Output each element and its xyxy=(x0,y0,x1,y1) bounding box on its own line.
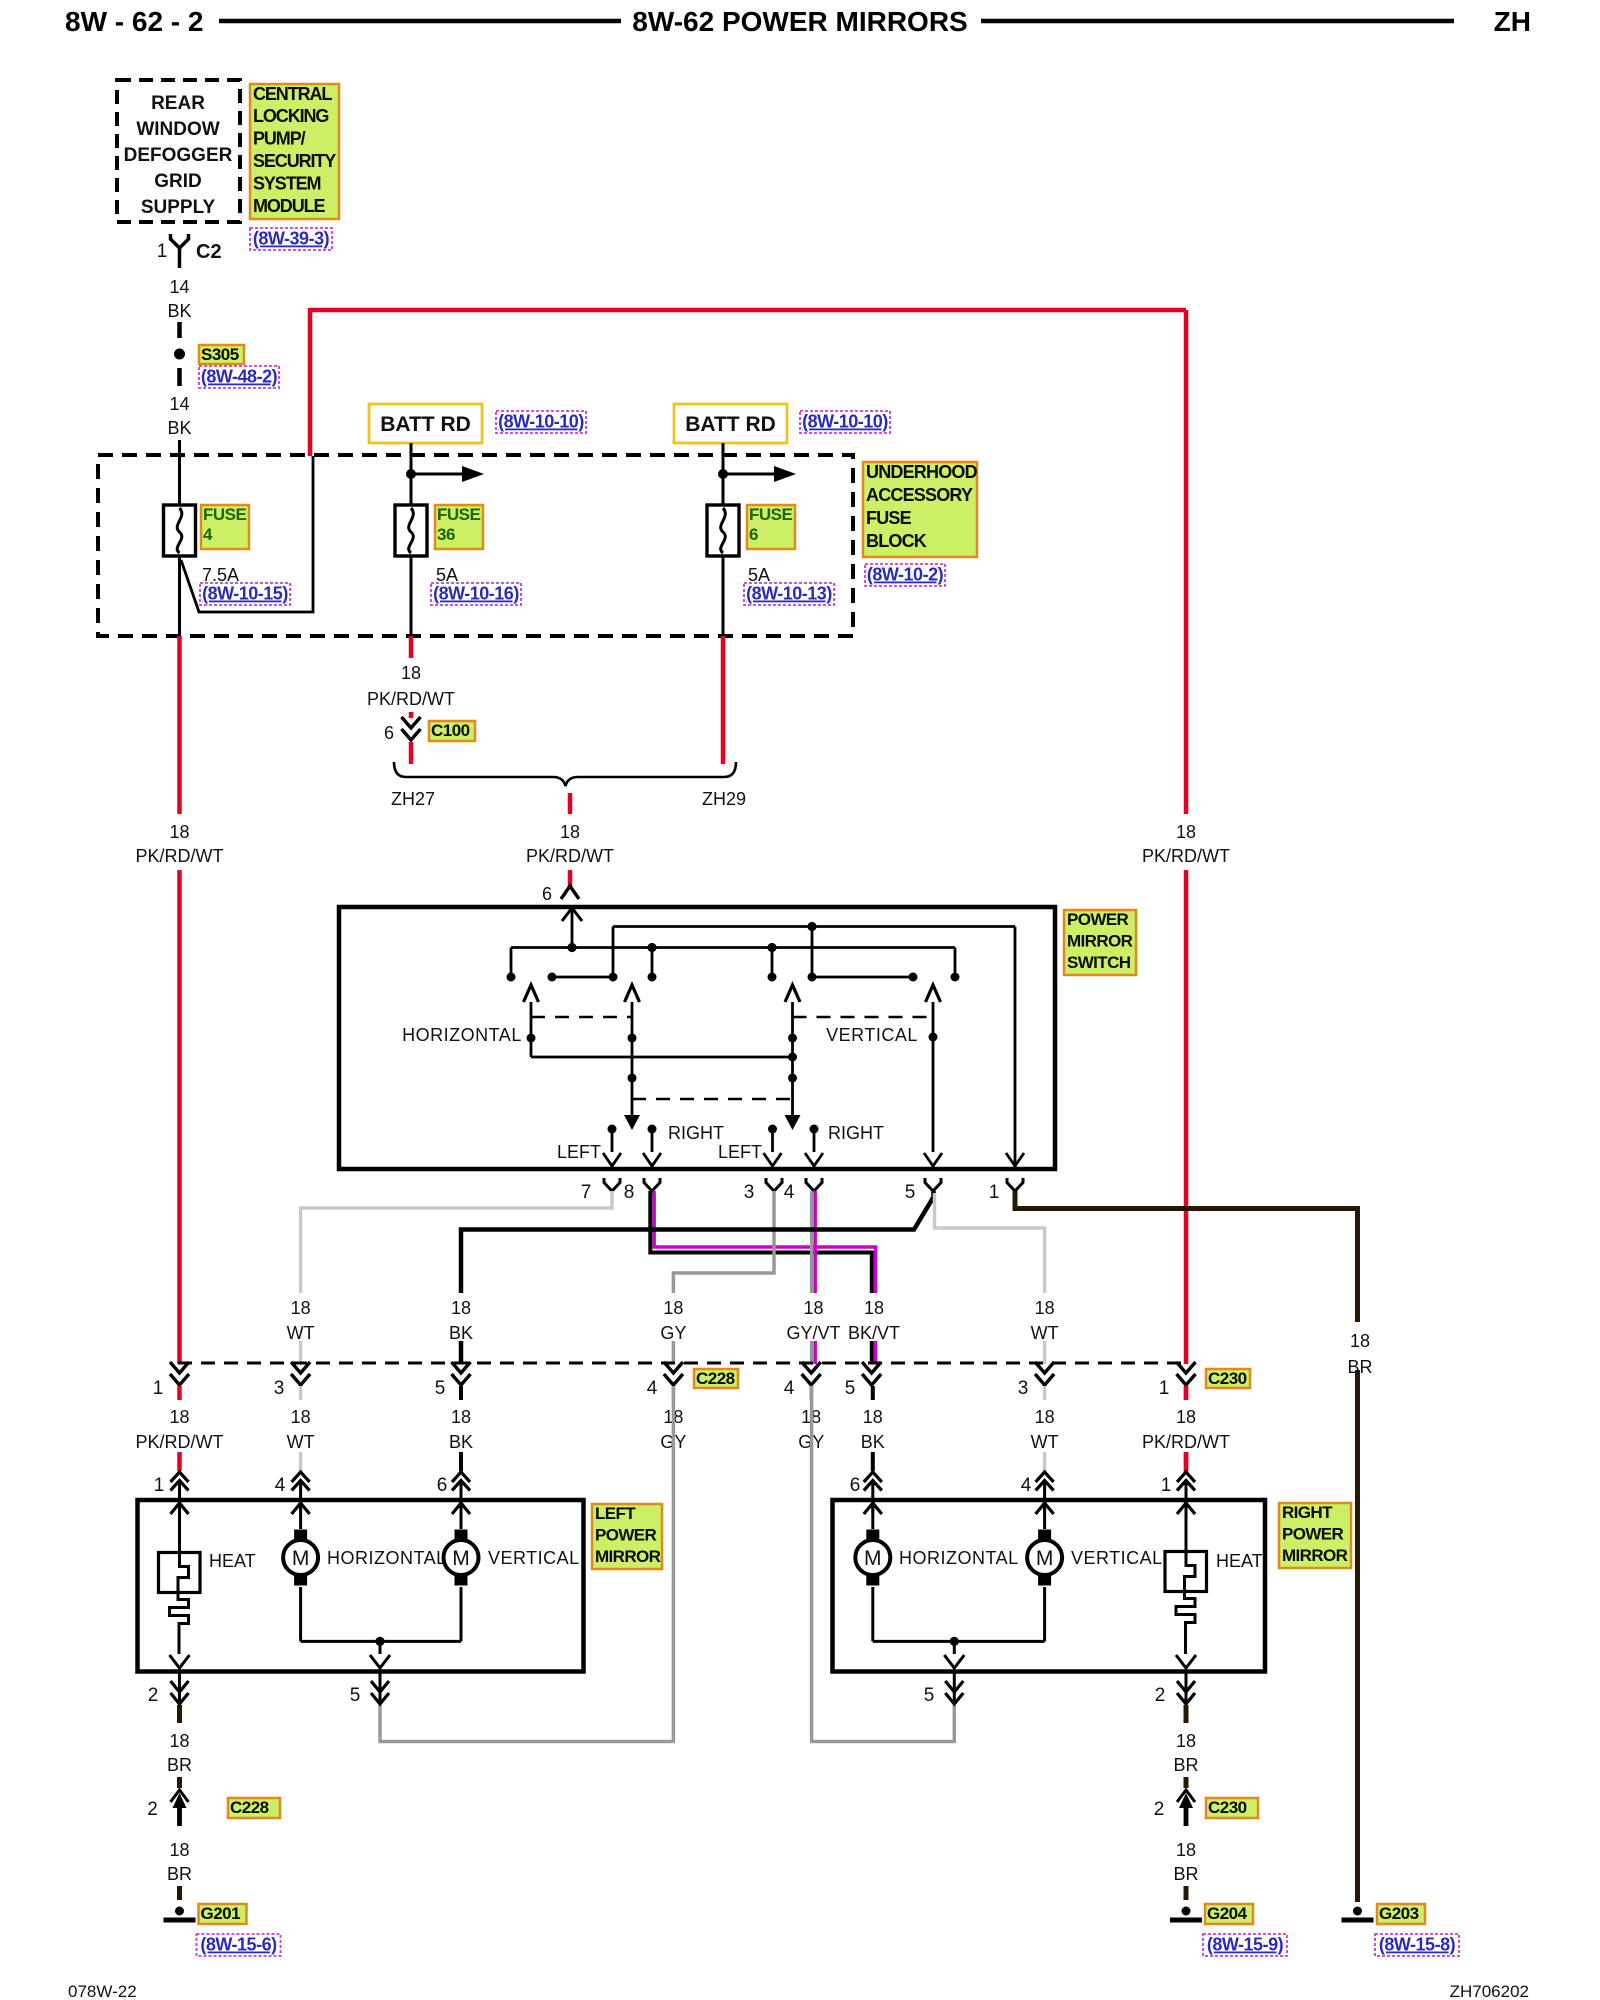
svg-text:ZH: ZH xyxy=(1494,6,1531,37)
svg-text:MIRROR: MIRROR xyxy=(595,1547,661,1566)
svg-text:(8W-48-2): (8W-48-2) xyxy=(201,367,278,387)
svg-text:C228: C228 xyxy=(696,1369,735,1388)
svg-text:(8W-15-9): (8W-15-9) xyxy=(1207,1935,1284,1955)
svg-text:ZH29: ZH29 xyxy=(702,789,746,809)
svg-text:WINDOW: WINDOW xyxy=(136,119,219,140)
svg-text:18: 18 xyxy=(1035,1298,1055,1318)
svg-text:PK/RD/WT: PK/RD/WT xyxy=(367,689,455,709)
svg-text:M: M xyxy=(864,1547,882,1570)
svg-text:LEFT: LEFT xyxy=(557,1142,601,1162)
svg-text:POWER: POWER xyxy=(1067,910,1129,929)
svg-text:PK/RD/WT: PK/RD/WT xyxy=(136,846,224,866)
svg-text:PK/RD/WT: PK/RD/WT xyxy=(1142,1432,1230,1452)
svg-text:DEFOGGER: DEFOGGER xyxy=(124,145,233,166)
svg-text:18: 18 xyxy=(169,1407,189,1427)
svg-text:C100: C100 xyxy=(431,721,470,740)
svg-text:SUPPLY: SUPPLY xyxy=(141,197,216,218)
svg-text:2: 2 xyxy=(1154,1799,1165,1820)
svg-text:G203: G203 xyxy=(1379,1904,1419,1923)
svg-text:GY/VT: GY/VT xyxy=(786,1323,840,1343)
svg-text:1: 1 xyxy=(153,1378,164,1399)
svg-text:C228: C228 xyxy=(230,1798,269,1817)
svg-text:WT: WT xyxy=(1031,1323,1059,1343)
svg-text:5: 5 xyxy=(435,1378,446,1399)
svg-text:1: 1 xyxy=(1159,1378,1170,1399)
svg-text:(8W-10-13): (8W-10-13) xyxy=(746,584,832,604)
svg-text:HEAT: HEAT xyxy=(1216,1551,1263,1571)
svg-text:14: 14 xyxy=(169,394,189,414)
svg-text:6: 6 xyxy=(850,1475,861,1496)
svg-text:VERTICAL: VERTICAL xyxy=(1071,1548,1163,1568)
svg-text:BK: BK xyxy=(167,301,191,321)
svg-text:SYSTEM: SYSTEM xyxy=(253,173,321,193)
svg-text:4: 4 xyxy=(203,525,213,544)
svg-text:5A: 5A xyxy=(436,565,458,585)
svg-text:GRID: GRID xyxy=(154,171,202,192)
svg-text:BK: BK xyxy=(861,1432,885,1452)
svg-text:6: 6 xyxy=(749,525,758,544)
svg-text:CENTRAL: CENTRAL xyxy=(253,84,332,104)
svg-text:18: 18 xyxy=(864,1298,884,1318)
svg-text:8: 8 xyxy=(624,1182,635,1203)
svg-text:LOCKING: LOCKING xyxy=(253,106,328,126)
svg-text:GY: GY xyxy=(660,1323,686,1343)
svg-text:UNDERHOOD: UNDERHOOD xyxy=(866,462,978,482)
svg-text:BATT RD: BATT RD xyxy=(685,413,776,436)
svg-text:BK/VT: BK/VT xyxy=(848,1323,900,1343)
svg-text:WT: WT xyxy=(287,1432,315,1452)
svg-text:(8W-10-16): (8W-10-16) xyxy=(433,584,519,604)
svg-text:FUSE: FUSE xyxy=(437,505,481,524)
svg-text:4: 4 xyxy=(784,1378,795,1399)
svg-text:FUSE: FUSE xyxy=(203,505,247,524)
svg-text:4: 4 xyxy=(784,1182,795,1203)
svg-text:ZH706202: ZH706202 xyxy=(1450,1982,1529,2000)
svg-text:1: 1 xyxy=(154,1475,165,1496)
svg-text:PK/RD/WT: PK/RD/WT xyxy=(526,846,614,866)
svg-text:POWER: POWER xyxy=(595,1525,657,1544)
svg-text:(8W-15-6): (8W-15-6) xyxy=(200,1935,277,1955)
svg-text:POWER: POWER xyxy=(1282,1524,1344,1543)
svg-text:18: 18 xyxy=(291,1298,311,1318)
svg-text:3: 3 xyxy=(1018,1378,1029,1399)
svg-text:G204: G204 xyxy=(1207,1904,1248,1923)
svg-text:(8W-15-8): (8W-15-8) xyxy=(1379,1935,1456,1955)
svg-text:WT: WT xyxy=(1031,1432,1059,1452)
svg-text:2: 2 xyxy=(147,1799,158,1820)
svg-text:(8W-10-10): (8W-10-10) xyxy=(498,412,584,432)
svg-text:BR: BR xyxy=(167,1755,192,1775)
svg-text:5: 5 xyxy=(924,1685,935,1706)
svg-text:MODULE: MODULE xyxy=(253,196,325,216)
svg-text:M: M xyxy=(292,1547,310,1570)
svg-text:078W-22: 078W-22 xyxy=(68,1982,137,2000)
svg-text:BK: BK xyxy=(449,1432,473,1452)
svg-text:7.5A: 7.5A xyxy=(202,565,239,585)
svg-text:2: 2 xyxy=(1155,1685,1166,1706)
svg-text:WT: WT xyxy=(287,1323,315,1343)
svg-text:(8W-39-3): (8W-39-3) xyxy=(253,229,330,249)
svg-text:HORIZONTAL: HORIZONTAL xyxy=(899,1548,1019,1568)
svg-text:C230: C230 xyxy=(1208,1369,1247,1388)
svg-text:ZH27: ZH27 xyxy=(391,789,435,809)
svg-text:M: M xyxy=(452,1547,470,1570)
svg-text:PK/RD/WT: PK/RD/WT xyxy=(136,1432,224,1452)
svg-text:2: 2 xyxy=(148,1685,159,1706)
svg-text:VERTICAL: VERTICAL xyxy=(488,1548,580,1568)
svg-text:5: 5 xyxy=(905,1182,916,1203)
svg-text:1: 1 xyxy=(989,1182,1000,1203)
svg-text:3: 3 xyxy=(274,1378,285,1399)
svg-text:SWITCH: SWITCH xyxy=(1067,953,1131,972)
svg-text:FUSE: FUSE xyxy=(866,508,912,528)
svg-text:(8W-10-15): (8W-10-15) xyxy=(202,584,288,604)
svg-text:BR: BR xyxy=(1173,1755,1198,1775)
svg-text:5: 5 xyxy=(350,1685,361,1706)
svg-text:5A: 5A xyxy=(748,565,770,585)
svg-text:RIGHT: RIGHT xyxy=(828,1123,884,1143)
svg-text:S305: S305 xyxy=(201,345,239,364)
svg-text:LEFT: LEFT xyxy=(718,1142,762,1162)
svg-text:6: 6 xyxy=(437,1475,448,1496)
svg-text:8W-62 POWER MIRRORS: 8W-62 POWER MIRRORS xyxy=(632,6,967,37)
svg-text:RIGHT: RIGHT xyxy=(668,1123,724,1143)
svg-text:6: 6 xyxy=(542,884,552,904)
svg-text:18: 18 xyxy=(451,1407,471,1427)
svg-text:BR: BR xyxy=(1347,1357,1372,1377)
svg-text:18: 18 xyxy=(1350,1331,1370,1351)
svg-text:(8W-10-10): (8W-10-10) xyxy=(802,412,888,432)
svg-text:1: 1 xyxy=(157,241,168,262)
svg-text:BK: BK xyxy=(167,418,191,438)
svg-text:18: 18 xyxy=(169,1840,189,1860)
svg-text:14: 14 xyxy=(169,277,189,297)
svg-text:FUSE: FUSE xyxy=(749,505,793,524)
svg-text:5: 5 xyxy=(845,1378,856,1399)
svg-text:18: 18 xyxy=(401,663,421,683)
svg-text:G201: G201 xyxy=(201,1904,241,1923)
svg-text:8W - 62 - 2: 8W - 62 - 2 xyxy=(65,6,203,37)
svg-text:PUMP/: PUMP/ xyxy=(253,129,306,149)
svg-text:18: 18 xyxy=(663,1298,683,1318)
svg-text:BR: BR xyxy=(167,1864,192,1884)
svg-text:MIRROR: MIRROR xyxy=(1282,1546,1348,1565)
svg-text:18: 18 xyxy=(169,1731,189,1751)
svg-text:BLOCK: BLOCK xyxy=(866,531,927,551)
svg-text:PK/RD/WT: PK/RD/WT xyxy=(1142,846,1230,866)
svg-text:18: 18 xyxy=(863,1407,883,1427)
svg-text:4: 4 xyxy=(275,1475,286,1496)
svg-text:RIGHT: RIGHT xyxy=(1282,1503,1333,1522)
svg-text:18: 18 xyxy=(291,1407,311,1427)
svg-text:ACCESSORY: ACCESSORY xyxy=(866,485,973,505)
svg-text:4: 4 xyxy=(1021,1475,1032,1496)
svg-text:C230: C230 xyxy=(1208,1798,1247,1817)
svg-text:3: 3 xyxy=(744,1182,755,1203)
svg-text:18: 18 xyxy=(1176,1731,1196,1751)
svg-text:18: 18 xyxy=(1176,1840,1196,1860)
svg-text:REAR: REAR xyxy=(151,93,205,114)
svg-text:4: 4 xyxy=(647,1378,658,1399)
svg-text:HORIZONTAL: HORIZONTAL xyxy=(327,1548,447,1568)
svg-text:BR: BR xyxy=(1173,1864,1198,1884)
svg-text:18: 18 xyxy=(803,1298,823,1318)
svg-text:BK: BK xyxy=(449,1323,473,1343)
svg-text:7: 7 xyxy=(581,1182,592,1203)
svg-text:18: 18 xyxy=(1176,1407,1196,1427)
svg-text:M: M xyxy=(1036,1547,1054,1570)
svg-text:36: 36 xyxy=(437,525,455,544)
svg-text:(8W-10-2): (8W-10-2) xyxy=(867,565,944,585)
svg-text:1: 1 xyxy=(1161,1475,1172,1496)
svg-text:18: 18 xyxy=(560,822,580,842)
svg-text:6: 6 xyxy=(384,723,394,743)
svg-text:C2: C2 xyxy=(196,241,222,263)
svg-text:VERTICAL: VERTICAL xyxy=(826,1025,918,1045)
svg-text:MIRROR: MIRROR xyxy=(1067,931,1133,950)
svg-text:BATT RD: BATT RD xyxy=(380,413,471,436)
svg-text:18: 18 xyxy=(1176,822,1196,842)
svg-text:LEFT: LEFT xyxy=(595,1504,636,1523)
svg-text:HEAT: HEAT xyxy=(209,1551,256,1571)
svg-text:18: 18 xyxy=(451,1298,471,1318)
svg-text:HORIZONTAL: HORIZONTAL xyxy=(402,1025,522,1045)
svg-text:SECURITY: SECURITY xyxy=(253,151,336,171)
svg-text:18: 18 xyxy=(1035,1407,1055,1427)
svg-text:18: 18 xyxy=(169,822,189,842)
